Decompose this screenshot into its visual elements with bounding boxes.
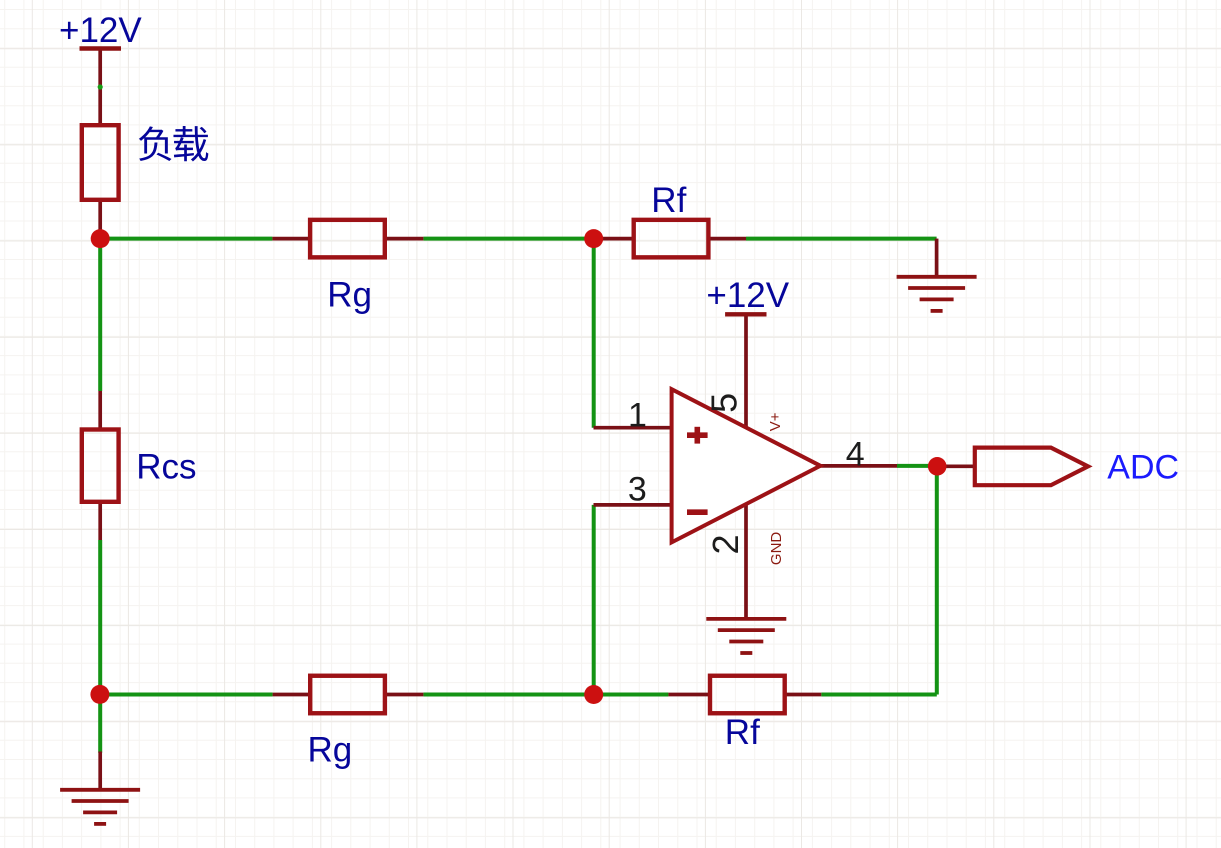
svg-text:5: 5	[704, 393, 745, 413]
svg-text:Rf: Rf	[651, 181, 686, 220]
svg-text:Rf: Rf	[725, 713, 760, 752]
svg-text:Rcs: Rcs	[136, 448, 196, 487]
svg-text:2: 2	[705, 534, 746, 554]
svg-text:4: 4	[846, 435, 865, 473]
svg-text:Rg: Rg	[327, 275, 372, 314]
svg-text:+12V: +12V	[706, 276, 789, 315]
svg-text:1: 1	[628, 396, 647, 434]
svg-text:V+: V+	[767, 412, 784, 431]
svg-text:ADC: ADC	[1107, 449, 1179, 487]
svg-text:3: 3	[628, 471, 647, 509]
svg-text:GND: GND	[768, 532, 785, 566]
svg-text:Rg: Rg	[308, 731, 353, 770]
svg-text:+12V: +12V	[59, 11, 142, 50]
